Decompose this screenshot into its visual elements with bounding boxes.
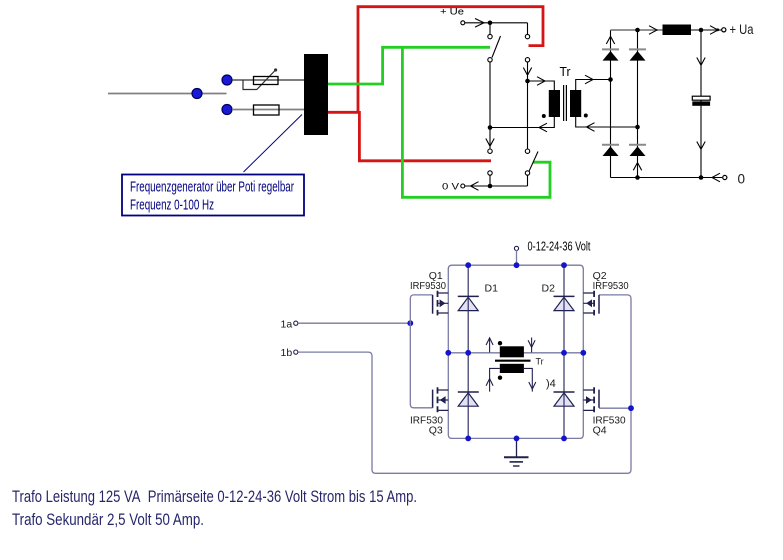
wire rectifier mid vertical	[637, 30, 639, 178]
polarity dot primary	[542, 114, 546, 118]
wire upper branch to block	[232, 79, 305, 81]
svg-text:Trafo Sekundär 2,5 Volt 50 Amp: Trafo Sekundär 2,5 Volt 50 Amp.	[12, 511, 204, 529]
arrow down upper right vertical	[697, 58, 705, 66]
svg-text:D2: D2	[542, 283, 556, 295]
svg-text:0: 0	[738, 172, 746, 187]
arrow left on primary bottom lead	[539, 123, 547, 132]
wire supply stem	[516, 250, 518, 265]
svg-text:+ Ue: + Ue	[440, 7, 464, 17]
polarity dot secondary	[584, 114, 588, 118]
capacitor C1	[692, 96, 710, 100]
diode D2	[554, 295, 575, 297]
wire D1 vertical	[467, 265, 469, 438]
node junction right mid	[525, 79, 530, 84]
node 1a junction	[407, 320, 413, 326]
node top rail supply	[514, 262, 520, 268]
node junction +Ue	[488, 21, 493, 26]
wire Q1 drain-source conductor	[447, 268, 449, 353]
transformer Tr core	[563, 85, 565, 121]
potentiometer wiper arm	[243, 71, 275, 90]
transformer Tr secondary winding	[570, 90, 581, 117]
node bottom rail ground	[514, 436, 520, 442]
arrow right to +Ua	[710, 26, 718, 35]
wire 1a to gate rail	[298, 322, 410, 324]
transistor Q4 IRF530	[583, 387, 599, 412]
wire red branch down to lower-left switch	[359, 111, 491, 161]
node mid rail D1	[465, 350, 471, 356]
svg-text:Frequenz 0-100 Hz: Frequenz 0-100 Hz	[130, 197, 214, 214]
node mid rail Q2	[580, 350, 586, 356]
switch S2 upper-right terminals	[527, 23, 529, 35]
svg-text:IRF9530: IRF9530	[410, 280, 446, 292]
wire rectifier bottom rail	[611, 177, 702, 179]
wire to 0 terminal	[701, 177, 722, 179]
wire +Ue to node	[465, 22, 528, 24]
arrow down on secondary right stub	[529, 382, 536, 389]
inductor L1	[663, 25, 692, 36]
arrow right on +Ue wire	[475, 19, 484, 28]
wire left chain down	[489, 62, 491, 149]
arrow left on 0 wire	[712, 173, 720, 182]
diode D7 (bottom left of bridge)	[602, 144, 619, 146]
arrow up primary left	[489, 338, 491, 353]
svg-text:Tr: Tr	[536, 356, 544, 366]
node lower branch	[222, 105, 232, 115]
wire gate rail up to Q1 gate	[410, 295, 432, 323]
callout pointer line	[244, 115, 303, 173]
wire left chain bottom	[489, 175, 491, 186]
wire green net (generator output B)	[328, 47, 490, 84]
svg-text:Trafo Leistung 125 VA Primärs: Trafo Leistung 125 VA Primärseite 0-12-2…	[12, 488, 417, 506]
arrow up above diode D5	[606, 36, 614, 44]
node bottom rail left	[465, 436, 471, 442]
transformer Tr (bridge) secondary winding	[500, 364, 524, 373]
wire bottom rail	[468, 437, 564, 439]
node secondary bottom junction	[635, 125, 640, 130]
transistor Q1 IRF9530	[433, 291, 449, 316]
wire lower branch to block	[232, 109, 305, 111]
wire secondary left stub	[490, 368, 500, 391]
diode D5 (top left of bridge)	[602, 48, 619, 50]
node junction left mid	[488, 125, 493, 130]
svg-text:Q4: Q4	[593, 424, 607, 436]
node bottom rail right	[561, 436, 567, 442]
arrow left on secondary bottom lead	[587, 123, 595, 132]
transformer Tr primary winding	[549, 90, 560, 117]
arrow right on primary top lead	[537, 77, 545, 86]
diode D1	[458, 295, 479, 297]
wire Q4 gate to right rail	[599, 407, 631, 409]
wire rectifier left vertical	[610, 30, 612, 178]
arrow right on top rail	[649, 26, 657, 35]
node top mid	[635, 28, 640, 33]
svg-text:D1: D1	[485, 283, 499, 295]
node mid rail Q1	[445, 350, 451, 356]
node output	[699, 28, 704, 33]
transistor Q3 IRF530	[433, 387, 449, 412]
wire bottom rail of switches	[490, 185, 528, 187]
arrow down on left chain	[486, 139, 494, 147]
wire right chain bottom	[527, 175, 529, 186]
wire red net (generator output A)	[328, 7, 543, 113]
arrow down lower right vertical	[697, 142, 705, 150]
wire output +Ua	[691, 29, 722, 31]
arrow down primary right	[531, 338, 533, 353]
terminal 0-12-24-36 Volt	[514, 246, 518, 250]
svg-text:)4: )4	[546, 378, 556, 390]
svg-text:Tr: Tr	[560, 65, 571, 79]
node on input line	[192, 89, 202, 99]
wire secondary bottom lead	[576, 117, 638, 127]
diode D3 (lower left)	[458, 391, 479, 393]
terminal +Ua	[722, 28, 726, 32]
svg-text:0-12-24-36 Volt: 0-12-24-36 Volt	[528, 238, 591, 253]
polarity dot secondary (bridge)	[498, 376, 502, 380]
switch S1 upper-left	[489, 23, 491, 35]
arrow down on right chain	[523, 68, 531, 76]
transformer Tr (bridge) primary winding	[500, 346, 524, 357]
arrow right on secondary top lead	[585, 75, 593, 84]
node top rail right	[561, 262, 567, 268]
svg-text:Q3: Q3	[429, 424, 443, 436]
wire Q3 conductor down to bottom rail	[448, 353, 468, 439]
svg-text:IRF9530: IRF9530	[593, 280, 629, 292]
wire secondary top lead	[576, 80, 611, 91]
node mid rail D2	[561, 350, 567, 356]
svg-text:1a: 1a	[281, 318, 293, 330]
wire primary top lead	[528, 81, 555, 90]
wire 1b routing to right gate rail	[298, 295, 631, 473]
switch S3 lower-left terminals	[488, 149, 492, 153]
diode D4 (lower right)	[554, 391, 575, 393]
arrow left on 0V wire	[471, 182, 479, 191]
node bottom right	[699, 175, 704, 180]
node junction 0V	[488, 184, 493, 189]
transistor Q2 IRF9530	[583, 291, 599, 316]
node top rail left	[465, 262, 471, 268]
node Q4 gate junction	[628, 405, 634, 411]
wire green branch down to lower-right switch	[402, 46, 550, 197]
arrow up on secondary left stub	[486, 379, 493, 386]
wire secondary right stub	[524, 368, 532, 391]
polarity dot primary (bridge)	[498, 341, 502, 345]
wire gate rail down to Q3 gate	[410, 323, 432, 408]
frequency generator block	[304, 54, 328, 135]
ground symbol	[516, 438, 518, 456]
node secondary top junction	[608, 77, 613, 82]
wire middle rail	[448, 352, 583, 354]
svg-text:+ Ua: + Ua	[730, 22, 754, 37]
svg-text:1b: 1b	[281, 347, 293, 359]
wire rectifier top rail	[611, 29, 663, 31]
diode D6 (top mid of bridge)	[629, 48, 646, 50]
svg-text:0 V: 0 V	[442, 182, 460, 193]
wire right vertical (capacitor branch)	[700, 30, 702, 178]
svg-text:Frequenzgenerator über Poti re: Frequenzgenerator über Poti regelbar	[130, 179, 294, 196]
wire Q4 conductor down to bottom rail	[564, 353, 583, 439]
resistor R1 body	[254, 105, 280, 115]
wire Q2 drain-source conductor	[582, 268, 584, 353]
wire right chain down	[527, 62, 529, 149]
diode D8 (bottom mid of bridge)	[629, 144, 646, 146]
wire primary bottom lead	[490, 117, 554, 128]
callout text box	[122, 175, 304, 216]
wire D2 vertical	[563, 265, 565, 438]
potentiometer P1 body	[254, 77, 279, 85]
arrow up below diode D8	[633, 163, 641, 171]
node upper branch	[222, 75, 232, 85]
transformer Tr (bridge) core	[495, 360, 531, 362]
node bottom mid	[635, 175, 640, 180]
wire input line left	[108, 93, 227, 95]
wire top rail	[448, 265, 583, 269]
switch S4 lower-right	[525, 149, 529, 153]
terminal 0	[723, 175, 727, 179]
